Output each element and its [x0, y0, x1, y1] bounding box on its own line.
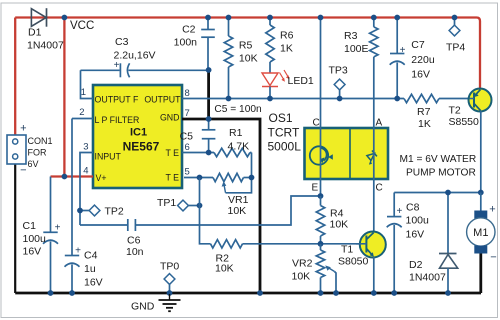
LED LED1 [262, 70, 289, 99]
wire T1 emitter to ground rail [373, 257, 375, 293]
junction TP0 ground [167, 290, 173, 296]
pin number 6 [185, 142, 190, 153]
R6 value label 1K [280, 43, 293, 55]
resistor R3 [370, 18, 378, 129]
IC1 pin name GND [160, 112, 180, 122]
capacitor C3 [120, 63, 129, 77]
D1 reference label [28, 27, 42, 39]
pin number 4 [83, 166, 88, 177]
svg-text:VR2: VR2 [292, 258, 313, 270]
svg-text:+: + [396, 206, 402, 217]
R3 reference label [344, 30, 358, 42]
C4 value label 1u [84, 263, 96, 275]
svg-text:5: 5 [185, 167, 190, 178]
svg-text:NE567: NE567 [123, 140, 160, 154]
svg-text:10n: 10n [126, 246, 144, 258]
svg-text:C5 = 100n: C5 = 100n [214, 104, 261, 115]
wire CON1 minus to ground rail [14, 164, 16, 293]
test point TP3 [334, 79, 345, 98]
potentiometer VR2 [316, 244, 336, 293]
R4 value label 10K [330, 219, 349, 231]
C8 polarity plus [396, 206, 402, 217]
IC1 pin name L P FILTER [95, 115, 140, 125]
M1 note line 1 [400, 154, 477, 165]
junction GND net rail [257, 290, 263, 296]
CON1 reference label [28, 136, 53, 146]
pin number 5 [185, 167, 190, 178]
pin number 2 [79, 107, 84, 118]
CON1 plus mark [20, 123, 26, 135]
R2 reference label [216, 253, 230, 265]
test point TP1 [178, 200, 200, 211]
ground symbol [159, 294, 181, 311]
IC1 pin name INPUT [95, 151, 122, 161]
CON1 minus mark [20, 165, 26, 177]
C8 value label 100u [406, 215, 430, 227]
junction pin5 node [197, 175, 203, 181]
C8 value label 16V [406, 229, 425, 241]
test point TP4 [449, 18, 460, 36]
svg-text:A: A [376, 118, 383, 129]
svg-text:C: C [313, 118, 320, 129]
svg-text:4: 4 [83, 166, 88, 177]
test point TP2 [80, 205, 100, 216]
svg-text:IC1: IC1 [130, 127, 147, 139]
capacitor C8 [387, 193, 402, 294]
wire T2 collector down [480, 111, 482, 193]
R4 reference label [330, 208, 344, 220]
C5 reference label [180, 131, 194, 143]
svg-text:6V: 6V [28, 159, 39, 169]
svg-text:C4: C4 [84, 250, 98, 262]
CON1 label FOR [28, 148, 47, 158]
svg-text:CON1: CON1 [28, 136, 53, 146]
svg-text:FOR: FOR [28, 148, 47, 158]
TP1 label [157, 197, 176, 209]
svg-text:M1 = 6V WATER: M1 = 6V WATER [400, 154, 477, 165]
junction C7 bottom on base row [394, 96, 400, 102]
wire pin7 row to ground rail [209, 119, 260, 293]
IC1 value label NE567 [123, 140, 160, 154]
IC1 pin name V+ [96, 173, 107, 183]
OS1 pin label C (top left) [313, 118, 320, 129]
T1 value label S8050 [338, 256, 369, 268]
resistor R2 and base wire to T1 [211, 240, 367, 248]
OS1 value label 5000L [268, 140, 302, 154]
IC IC1 NE567 body [93, 85, 182, 188]
TP4 label [446, 42, 465, 54]
wire C6 to sensor E node [135, 196, 321, 225]
optocoupler OS1 TCRT5000L body [305, 128, 389, 179]
svg-text:T1: T1 [341, 244, 353, 256]
resistor R1 [214, 148, 252, 177]
capacitor C1 [43, 177, 58, 294]
C1 polarity plus [55, 223, 61, 234]
junction TP3 on output row [337, 96, 343, 102]
R5 value label 10K [239, 53, 258, 65]
potentiometer VR1 [213, 173, 252, 193]
svg-text:C8: C8 [406, 202, 420, 214]
T2 reference label [449, 105, 461, 117]
junction R6 top on VCC rail [267, 15, 273, 21]
transistor T1 [356, 232, 386, 258]
test point TP0 [164, 274, 175, 293]
svg-text:2.2u,16V: 2.2u,16V [114, 50, 156, 62]
VR1 reference label [228, 194, 249, 206]
svg-text:C6: C6 [127, 235, 141, 247]
LED1 reference label [288, 75, 314, 87]
svg-text:10K: 10K [330, 219, 349, 231]
svg-text:16V: 16V [23, 246, 42, 258]
OS1 value label TCRT [268, 126, 300, 140]
svg-text:C5: C5 [180, 131, 194, 143]
svg-text:LED1: LED1 [288, 75, 314, 87]
C2 value label 100n [174, 37, 198, 49]
wire IC1 pin 2 stub [72, 118, 93, 120]
svg-text:R6: R6 [280, 30, 294, 42]
junction pin6 / R1 / C5 [206, 150, 212, 156]
connector CON1 [7, 135, 26, 164]
svg-text:T2: T2 [449, 105, 461, 117]
svg-text:3: 3 [83, 142, 88, 153]
TP0 label [160, 261, 179, 273]
diode D1 [31, 8, 46, 27]
svg-text:R1: R1 [229, 127, 243, 139]
svg-text:T E: T E [165, 148, 179, 158]
junction VR2 bottom ground [318, 290, 324, 296]
svg-text:GND: GND [131, 301, 155, 313]
svg-text:6: 6 [185, 142, 190, 153]
junction OS1 collector top on VCC rail [318, 15, 324, 21]
junction R3 top on VCC rail [371, 15, 377, 21]
M1 label inside motor [473, 227, 488, 239]
R1 value label 4.7K [228, 141, 250, 153]
junction TP4 on VCC rail [452, 15, 458, 21]
svg-text:16V: 16V [411, 69, 430, 81]
IC1 pin name OUTPUT [144, 94, 181, 104]
resistor R7 [404, 94, 470, 102]
wire IC1 pin 8 output row [182, 98, 404, 100]
C7 value label 16V [411, 69, 430, 81]
svg-text:16V: 16V [406, 229, 425, 241]
junction R5 top on VCC rail [226, 15, 232, 21]
svg-text:VCC: VCC [70, 20, 94, 32]
capacitor C2 [201, 18, 215, 69]
VR1 value label 10K [228, 205, 247, 217]
junction C2 bottom / C3 / ground net [206, 67, 212, 73]
T2 value label S8550 [449, 116, 480, 128]
C1 reference label [23, 220, 37, 232]
wire IC1 pin 6 stub [182, 152, 214, 154]
wire VCC drop to pin 4 [63, 18, 65, 177]
svg-text:1u: 1u [84, 263, 96, 275]
capacitor C7 [390, 18, 405, 99]
C5=100n note label [214, 104, 261, 115]
pin number 7 [185, 108, 190, 119]
svg-text:M1: M1 [473, 227, 488, 239]
IC1 pin name T E (pin 5) [165, 173, 179, 183]
svg-text:16V: 16V [84, 277, 103, 289]
svg-text:−: − [490, 252, 496, 264]
svg-text:E: E [312, 183, 319, 194]
junction VR1 right / R1 [249, 175, 255, 181]
svg-text:100n: 100n [174, 37, 198, 49]
junction VR2 wiper ground [333, 290, 339, 296]
C2 reference label [182, 24, 196, 36]
wire VCC left drop to CON1 [14, 18, 16, 135]
svg-text:TP4: TP4 [446, 42, 465, 54]
svg-text:10K: 10K [215, 263, 234, 275]
M1 note line 2 [406, 168, 476, 179]
R7 reference label [417, 106, 431, 118]
C8 reference label [406, 202, 420, 214]
svg-text:10K: 10K [239, 53, 258, 65]
svg-text:+: + [75, 246, 81, 257]
R6 reference label [280, 30, 294, 42]
IC1 pin name OUTPUT F [95, 94, 139, 104]
D1 value label [27, 40, 64, 52]
wire pin5 node down to R2 [200, 178, 211, 244]
svg-text:1: 1 [81, 87, 86, 98]
svg-text:D1: D1 [28, 27, 42, 39]
svg-text:OS1: OS1 [269, 111, 293, 125]
IC1 pin name T E (pin 6) [165, 148, 179, 158]
D2 value label 1N4007 [409, 272, 446, 284]
svg-text:C2: C2 [182, 24, 196, 36]
C3 value label [114, 50, 156, 62]
wire ground net C2/C3 node down to pin7 row [207, 69, 210, 119]
svg-text:−: − [20, 165, 26, 177]
transistor T2 [469, 89, 492, 112]
capacitor C6 [128, 219, 136, 231]
svg-text:T E: T E [165, 173, 179, 183]
IR LED symbol inside OS1 [363, 151, 378, 166]
svg-text:C: C [376, 183, 383, 194]
svg-text:S8050: S8050 [338, 256, 369, 268]
wire pin3 row to C6 [80, 224, 128, 226]
M1 plus mark [489, 204, 495, 216]
svg-text:PUMP MOTOR: PUMP MOTOR [406, 168, 476, 179]
wire IC1 pin 5 stub [184, 177, 213, 179]
svg-text:R5: R5 [239, 40, 253, 52]
svg-text:L P FILTER: L P FILTER [95, 115, 140, 125]
OS1 pin label A (top right) [376, 118, 383, 129]
svg-text:C1: C1 [23, 220, 37, 232]
svg-text:+: + [114, 60, 120, 71]
D2 reference label [409, 259, 423, 271]
phototransistor symbol inside OS1 [310, 146, 333, 164]
OS1 pin label C (bottom right) [376, 183, 383, 194]
junction R4 bottom on base row [318, 241, 324, 247]
junction pin7 / C5 / ground net [206, 116, 212, 122]
VR2 reference label [292, 258, 313, 270]
T1 reference label [341, 244, 353, 256]
wire IC1 pin 3 stub [80, 153, 93, 226]
svg-text:C7: C7 [411, 39, 425, 51]
motor M1 [467, 193, 495, 294]
junction C4 ground [69, 290, 75, 296]
node E junction [318, 193, 324, 199]
wire motor feed row [394, 192, 481, 194]
junction motor feed / T2 collector [478, 190, 484, 196]
junction C7 top on VCC rail [394, 15, 400, 21]
svg-text:C3: C3 [115, 36, 129, 48]
svg-text:100u: 100u [406, 215, 430, 227]
svg-text:S8550: S8550 [449, 116, 480, 128]
svg-text:TP1: TP1 [157, 197, 176, 209]
junction C2 top on VCC rail [205, 15, 211, 21]
junction D2 top [445, 190, 451, 196]
svg-text:TCRT: TCRT [268, 126, 300, 140]
C7 polarity plus [400, 45, 406, 56]
resistor R6 [266, 18, 274, 74]
svg-text:5000L: 5000L [268, 140, 302, 154]
VR2 value label 10K [292, 271, 311, 283]
diode D2 [439, 193, 458, 294]
wire IC1 pin 7 GND stub [182, 118, 209, 121]
junction TP1 node [197, 203, 203, 209]
svg-text:1K: 1K [280, 43, 293, 55]
OS1 reference label [269, 111, 293, 125]
svg-text:10K: 10K [228, 205, 247, 217]
junction C8 ground [391, 290, 397, 296]
svg-text:+: + [400, 45, 406, 56]
svg-text:100E: 100E [344, 43, 369, 55]
svg-text:2: 2 [79, 107, 84, 118]
IC1 reference label [130, 127, 147, 139]
wire IC1 pin 1 stub [81, 70, 94, 98]
svg-text:TP2: TP2 [105, 206, 124, 218]
C3 polarity plus [114, 60, 120, 71]
pin number 3 [83, 142, 88, 153]
wire VCC to OS1 collector and through to E node [320, 18, 322, 197]
C4 polarity plus [75, 246, 81, 257]
svg-text:V+: V+ [96, 173, 107, 183]
svg-text:8: 8 [185, 88, 190, 99]
R2 value label 10K [215, 263, 234, 275]
junction node V+ / C1 [62, 174, 68, 180]
capacitor C5 [202, 119, 216, 153]
svg-text:INPUT: INPUT [95, 151, 122, 161]
resistor R5 [224, 18, 232, 99]
capacitor C4 [65, 119, 80, 294]
svg-text:+: + [489, 204, 495, 216]
svg-text:7: 7 [185, 108, 190, 119]
GND label [131, 301, 155, 313]
svg-text:R7: R7 [417, 106, 431, 118]
pin number 1 [81, 87, 86, 98]
svg-text:R3: R3 [344, 30, 358, 42]
C7 reference label [411, 39, 425, 51]
svg-text:1K: 1K [418, 118, 431, 130]
C6 value label 10n [126, 246, 144, 258]
svg-text:10K: 10K [292, 271, 311, 283]
C4 value label 16V [84, 277, 103, 289]
svg-text:GND: GND [160, 112, 180, 122]
OS1 pin label E (bottom left) [312, 183, 319, 194]
svg-text:TP3: TP3 [329, 65, 348, 77]
junction TP2 node [77, 208, 83, 214]
wire C3 to ground node [128, 69, 208, 71]
svg-text:4.7K: 4.7K [228, 141, 250, 153]
C1 value label 16V [23, 246, 42, 258]
svg-text:+: + [55, 223, 61, 234]
node VCC [62, 15, 95, 32]
svg-text:1N4007: 1N4007 [409, 272, 446, 284]
resistor R4 [316, 196, 324, 244]
svg-text:OUTPUT: OUTPUT [144, 94, 181, 104]
junction D2 ground [445, 290, 451, 296]
R1 reference label [229, 127, 243, 139]
TP3 label [329, 65, 348, 77]
C3 reference label [115, 36, 129, 48]
C6 reference label [127, 235, 141, 247]
svg-text:100u: 100u [23, 233, 47, 245]
svg-text:OUTPUT F: OUTPUT F [95, 94, 139, 104]
junction LED1 / output [267, 96, 273, 102]
svg-text:D2: D2 [409, 259, 423, 271]
wire OS1 anode column through box to T1 collector [373, 128, 375, 232]
C7 value label 220u [411, 54, 435, 66]
R3 value label 100E [344, 43, 369, 55]
svg-text:+: + [20, 123, 26, 135]
svg-text:220u: 220u [411, 54, 435, 66]
svg-text:TP0: TP0 [160, 261, 179, 273]
R7 value label 1K [418, 118, 431, 130]
wire V+ row to pin 4 [51, 175, 94, 177]
R5 reference label [239, 40, 253, 52]
junction C1 ground [48, 290, 54, 296]
wire VCC top rail [15, 18, 480, 89]
junction T1 emitter ground [371, 290, 377, 296]
C4 reference label [84, 250, 98, 262]
junction R5 / output [226, 96, 232, 102]
pin number 8 [185, 88, 190, 99]
TP2 label [105, 206, 124, 218]
CON1 label 6V [28, 159, 39, 169]
wire bottom ground rail [15, 292, 481, 295]
M1 minus mark [490, 252, 496, 264]
C1 value label 100u [23, 233, 47, 245]
svg-text:1N4007: 1N4007 [27, 40, 64, 52]
wire pin1 to C3 [81, 69, 120, 71]
